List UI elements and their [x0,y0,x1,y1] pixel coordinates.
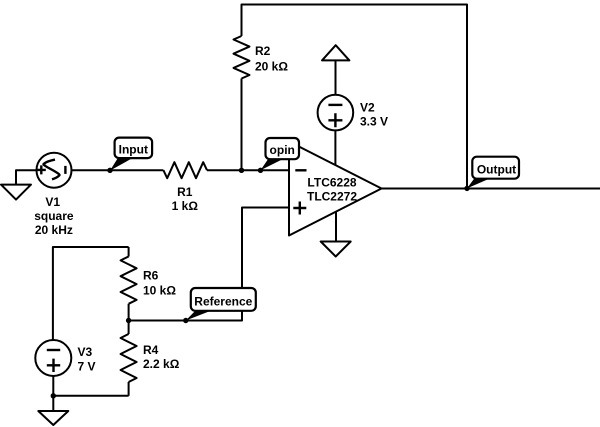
svg-text:R6: R6 [143,269,159,283]
svg-text:2.2 kΩ: 2.2 kΩ [143,357,180,371]
svg-text:Input: Input [119,142,148,156]
svg-text:R4: R4 [143,343,159,357]
svg-text:TLC2272: TLC2272 [307,190,357,204]
svg-text:20 kΩ: 20 kΩ [255,60,288,74]
svg-text:20 kHz: 20 kHz [35,223,73,237]
svg-text:3.3 V: 3.3 V [360,114,388,128]
svg-text:V1: V1 [45,195,60,209]
svg-text:R1: R1 [177,185,193,199]
svg-text:Reference: Reference [194,294,252,308]
svg-text:opin: opin [270,143,295,157]
svg-text:7 V: 7 V [78,359,96,373]
svg-text:10 kΩ: 10 kΩ [143,284,176,298]
svg-text:LTC6228: LTC6228 [307,176,356,190]
svg-text:V3: V3 [78,345,93,359]
svg-text:V2: V2 [360,101,375,115]
svg-text:square: square [34,209,74,223]
svg-text:R2: R2 [255,44,271,58]
svg-text:Output: Output [477,162,516,176]
svg-text:1 kΩ: 1 kΩ [172,199,199,213]
